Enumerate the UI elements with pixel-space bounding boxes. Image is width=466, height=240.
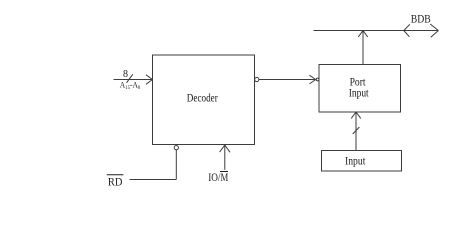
svg-text:BDB: BDB <box>411 12 431 26</box>
bus width slash on input wire <box>353 127 360 134</box>
BDB double-headed arrow <box>404 24 439 37</box>
wire decoder to port input <box>259 79 315 81</box>
svg-text:Input: Input <box>345 155 366 167</box>
svg-text:Decoder: Decoder <box>187 92 218 104</box>
wire RD horizontal <box>130 179 177 181</box>
wire A-bus into decoder <box>114 79 153 81</box>
bubble on decoder bottom (RD input) <box>174 146 178 150</box>
arrowhead up at bus <box>358 31 367 37</box>
svg-text:IO/: IO/ <box>208 172 221 184</box>
svg-text:Input: Input <box>349 88 370 100</box>
port input block U2 <box>319 65 401 113</box>
input block U3 <box>322 151 402 172</box>
bubble on port input left edge <box>316 78 319 81</box>
wire input to port input <box>355 113 357 151</box>
arrowhead into decoder left <box>146 75 153 85</box>
label RD (active low) <box>107 175 124 189</box>
bus width slash on A-bus <box>127 74 133 83</box>
bubble on decoder output <box>255 77 259 81</box>
svg-text:M: M <box>221 172 229 184</box>
BDB bus line <box>314 30 439 32</box>
svg-text:RD: RD <box>108 177 123 189</box>
label IO/M (memory bar) <box>208 172 228 184</box>
arrowhead into port input <box>309 75 315 84</box>
decoder block U1 <box>153 55 255 145</box>
arrowhead up into port input bottom <box>351 112 361 118</box>
wire IO/M into decoder bottom <box>224 146 226 170</box>
wire port input to BDB bus <box>362 31 364 64</box>
svg-text:A15-A8: A15-A8 <box>120 79 141 91</box>
svg-text:8: 8 <box>123 69 128 80</box>
arrowhead up into decoder bottom <box>220 145 230 152</box>
wire RD vertical <box>175 150 177 180</box>
